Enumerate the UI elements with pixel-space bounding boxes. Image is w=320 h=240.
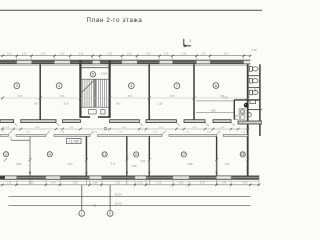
svg-text:1.88: 1.88	[211, 109, 216, 112]
bottom rooms area texts	[17, 160, 230, 168]
room 13 closet partition	[11, 139, 30, 141]
top wall sill line	[0, 65, 250, 67]
svg-text:0.98: 0.98	[223, 97, 228, 100]
window top w2	[32, 61, 55, 64]
wall rooms 3|4	[39, 64, 41, 120]
svg-text:1.30: 1.30	[164, 53, 169, 55]
bottom exterior wall	[0, 176, 260, 180]
svg-text:1.50: 1.50	[60, 53, 65, 55]
svg-text:2.95: 2.95	[73, 183, 78, 185]
wall rooms 13|14	[29, 136, 31, 175]
svg-text:21.9: 21.9	[64, 103, 69, 106]
svg-text:5.31: 5.31	[141, 160, 146, 163]
overall dim line 1	[9, 196, 251, 198]
svg-text:49.54: 49.54	[115, 193, 122, 197]
svg-text:8: 8	[215, 84, 217, 88]
svg-text:8.15: 8.15	[111, 163, 116, 166]
stair landing boxes	[89, 110, 97, 114]
wall rooms 17|18	[216, 136, 218, 175]
svg-text:7.64: 7.64	[225, 163, 230, 166]
svg-text:1.30: 1.30	[201, 53, 206, 55]
right strip cell partitions	[249, 76, 263, 110]
top exterior wall	[0, 60, 250, 64]
svg-text:1: 1	[189, 39, 191, 43]
room circle 13	[3, 152, 8, 157]
svg-text:14: 14	[48, 153, 52, 157]
svg-text:5.08: 5.08	[128, 96, 133, 98]
svg-text:2.40: 2.40	[1, 126, 5, 132]
corridor top wall segments	[0, 120, 262, 124]
stove dark blob	[244, 103, 249, 108]
kitchen top wall	[234, 99, 260, 101]
bottom rooms wall ticks	[4, 158, 249, 161]
window top w6	[173, 61, 197, 64]
svg-text:6.98: 6.98	[188, 163, 193, 166]
wall rooms 7|8	[193, 64, 195, 120]
bottom dimension line	[0, 184, 260, 186]
svg-text:50: 50	[93, 203, 97, 207]
svg-text:План 2-го этажа: План 2-го этажа	[87, 17, 143, 24]
svg-text:3: 3	[16, 84, 18, 88]
window top w5	[137, 61, 160, 64]
room circle 5	[90, 72, 95, 77]
svg-text:18: 18	[241, 153, 245, 157]
room circle 3	[14, 83, 20, 89]
stair left wall	[79, 60, 81, 118]
bottom window glazing lines	[17, 176, 260, 178]
svg-text:1.60: 1.60	[179, 183, 184, 185]
svg-text:15: 15	[103, 153, 107, 157]
wc fixture cell 2	[249, 78, 258, 83]
right section wall	[247, 64, 249, 179]
svg-text:2.40: 2.40	[251, 48, 257, 52]
bath boxes	[235, 116, 239, 119]
room circle 7	[174, 83, 180, 89]
closet lines room 8	[196, 100, 234, 102]
svg-text:1.40: 1.40	[51, 183, 56, 185]
svg-text:2.75: 2.75	[200, 183, 205, 185]
svg-text:4: 4	[58, 84, 60, 88]
svg-text:5.68: 5.68	[170, 96, 175, 98]
svg-text:8: 8	[109, 212, 111, 216]
window bottom w1	[17, 176, 47, 179]
svg-text:5.08: 5.08	[18, 96, 23, 98]
stair top landing edge	[82, 67, 109, 69]
svg-text:8.51: 8.51	[17, 163, 22, 166]
corridor top door leaves	[14, 123, 235, 126]
top dimension line	[0, 55, 250, 57]
room circle 6	[128, 83, 134, 89]
svg-text:1.10: 1.10	[253, 87, 257, 93]
svg-text:2.80: 2.80	[243, 183, 248, 185]
svg-text:5.08: 5.08	[60, 96, 65, 98]
axis circle left	[79, 211, 85, 217]
wall rooms 15|16	[126, 136, 128, 175]
svg-text:1.10: 1.10	[138, 183, 143, 185]
svg-text:2.95: 2.95	[29, 183, 34, 185]
bottom window edge extension lines	[17, 176, 260, 184]
svg-text:2.30: 2.30	[41, 53, 46, 55]
sheet top border line	[0, 9, 262, 11]
small box right of wall	[250, 100, 256, 104]
wc fixture cell 1	[249, 67, 258, 72]
svg-text:7: 7	[176, 84, 178, 88]
svg-text:31.93: 31.93	[101, 72, 108, 75]
svg-text:+1.700: +1.700	[69, 140, 79, 144]
wc fixture cell 3	[249, 90, 258, 95]
overall dim line 2	[9, 204, 251, 206]
far right wall	[259, 64, 261, 136]
level mark +1.700	[66, 139, 81, 144]
svg-text:13: 13	[4, 153, 8, 157]
svg-text:2.00: 2.00	[7, 53, 12, 55]
room circle 8	[213, 83, 219, 89]
room circle 4	[56, 83, 62, 89]
room dim line y98	[0, 97, 250, 99]
stair right wall	[108, 60, 110, 118]
corridor bottom wall segments	[0, 135, 248, 137]
corridor diameter symbol	[104, 127, 107, 130]
bottom wall left end pier	[0, 176, 5, 180]
window top w1	[0, 61, 17, 64]
stair stringer	[93, 79, 95, 107]
svg-text:5: 5	[92, 73, 94, 77]
window bottom w4	[146, 176, 173, 179]
svg-text:3.35: 3.35	[116, 183, 121, 185]
corridor bottom door leaves	[9, 131, 221, 134]
room circle 15	[102, 152, 107, 157]
svg-text:20.50: 20.50	[115, 201, 122, 205]
room area texts top row	[34, 97, 228, 113]
window bottom w2	[60, 176, 90, 179]
svg-text:2.70: 2.70	[157, 183, 162, 185]
svg-text:2.30: 2.30	[79, 53, 84, 55]
svg-text:1.50: 1.50	[22, 53, 27, 55]
svg-text:14.3: 14.3	[68, 163, 73, 166]
svg-text:17: 17	[182, 153, 186, 157]
top dimension ticks	[1, 55, 251, 57]
axis extension lines	[81, 185, 83, 211]
svg-text:14.3: 14.3	[116, 103, 121, 106]
wall rooms 14|15	[85, 136, 87, 175]
svg-text:3.18: 3.18	[158, 103, 163, 106]
stair bay bottom wall	[80, 116, 90, 118]
svg-text:1.70: 1.70	[7, 183, 12, 185]
svg-text:1.20: 1.20	[93, 183, 98, 185]
axis circle right	[107, 211, 113, 217]
svg-text:6: 6	[130, 84, 132, 88]
washbasin box	[239, 109, 245, 115]
extension arrows to bottom dim	[30, 160, 217, 185]
window top w7	[210, 61, 244, 64]
window top w4	[100, 61, 122, 64]
window bottom w5	[189, 176, 217, 179]
corridor dimension line	[0, 128, 250, 130]
svg-text:3.40: 3.40	[224, 53, 229, 55]
top dimension numbers	[7, 53, 229, 55]
svg-text:16: 16	[135, 153, 139, 157]
small circle on wall	[247, 113, 251, 117]
wall rooms 6|7	[148, 64, 150, 120]
window top w3	[70, 61, 93, 64]
room circle 17	[181, 152, 186, 157]
top window edge extension lines	[17, 56, 244, 64]
wall rooms 16|17	[148, 136, 150, 175]
room circle 16	[134, 152, 139, 157]
room circle 18	[240, 152, 245, 157]
window bottom w6	[231, 176, 259, 179]
stair flight edges	[82, 78, 109, 80]
svg-text:0.98: 0.98	[132, 165, 137, 168]
svg-text:2.30: 2.30	[108, 53, 113, 55]
stair treads	[83, 79, 107, 107]
svg-text:2.30: 2.30	[146, 53, 151, 55]
bottom dimension numbers	[7, 183, 248, 185]
top window glazing lines	[0, 61, 244, 63]
svg-text:2.40: 2.40	[182, 53, 187, 55]
section mark 1 (top)	[183, 39, 191, 46]
svg-text:1.50: 1.50	[127, 53, 132, 55]
room circle 14	[47, 152, 52, 157]
svg-text:1.45: 1.45	[222, 183, 227, 185]
bottom wall sill line	[0, 180, 260, 182]
window bottom w3	[102, 176, 136, 179]
svg-text:1: 1	[81, 212, 83, 216]
corridor dimension numbers	[5, 127, 246, 134]
svg-text:14.3: 14.3	[34, 103, 39, 106]
kitchen left wall	[233, 100, 235, 120]
stair break diagonal	[82, 81, 94, 92]
